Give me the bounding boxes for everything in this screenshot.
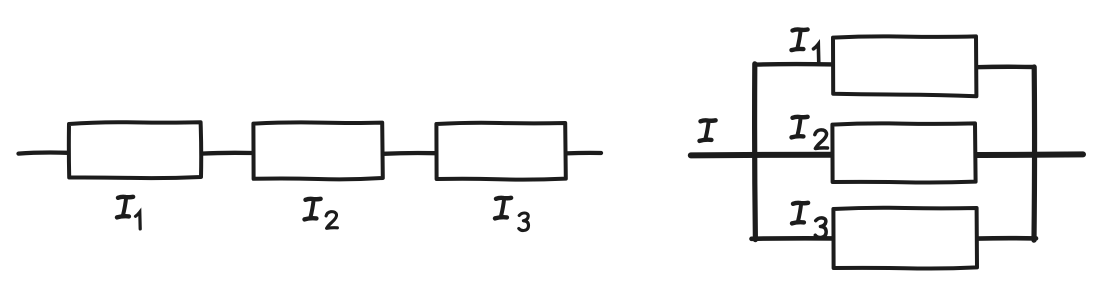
wire right lead out of R3 — [566, 151, 601, 156]
label I3 (parallel branch current) — [792, 203, 826, 238]
label I2 (parallel branch current) — [792, 117, 828, 149]
resistor R2 (series, label I2) — [253, 122, 382, 179]
resistor R3 (series, label I3) — [436, 123, 565, 180]
label I1 (series current) — [117, 197, 140, 229]
resistor R6 (parallel bottom, label I3) — [833, 208, 977, 269]
resistor R4 (parallel top, label I1) — [833, 36, 976, 96]
wire right bus vertical — [1031, 67, 1037, 240]
wire left bus vertical — [752, 64, 758, 240]
wire R1 to R2 — [201, 151, 253, 156]
wire left lead into R1 — [19, 153, 69, 154]
label I2 (series current) — [305, 199, 338, 229]
label I1 (parallel branch current) — [792, 29, 819, 63]
wire top branch left — [755, 62, 833, 67]
label I (total current) — [700, 120, 716, 141]
label I3 (series current) — [495, 198, 529, 231]
wire top branch right — [977, 65, 1035, 70]
wire R2 to R3 — [383, 151, 436, 156]
resistor R5 (parallel middle, label I2) — [832, 123, 975, 182]
wire main horizontal (parallel circuit, node I) — [691, 154, 1083, 155]
resistor R1 (series, label I1) — [69, 122, 201, 178]
wire bottom branch right — [977, 236, 1036, 241]
wire bottom branch left — [752, 236, 834, 241]
